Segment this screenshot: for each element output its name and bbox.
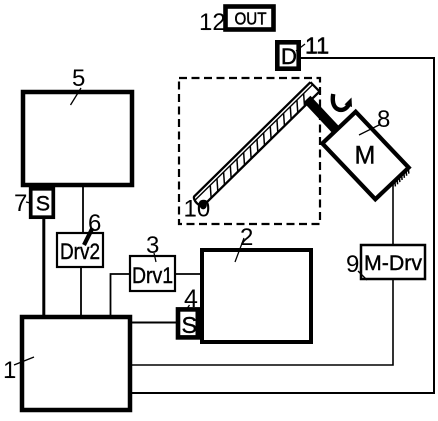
label 11: [296, 33, 329, 59]
svg-text:1: 1: [3, 357, 16, 384]
svg-text:10: 10: [184, 196, 211, 223]
svg-text:8: 8: [377, 106, 390, 133]
label 6: [84, 210, 101, 245]
svg-text:S: S: [182, 312, 198, 338]
svg-text:7: 7: [14, 190, 27, 217]
svg-text:3: 3: [146, 232, 159, 259]
detector D 11: [277, 42, 298, 69]
label 9: [346, 251, 367, 280]
driver Drv2 6: [57, 233, 103, 267]
wire block5 to Drv2: [82, 187, 84, 233]
svg-text:Drv1: Drv1: [132, 263, 173, 288]
label 5: [71, 65, 86, 105]
scale bar 10: [192, 82, 319, 207]
svg-text:OUT: OUT: [235, 9, 267, 29]
block 1: [22, 317, 130, 410]
svg-text:Drv2: Drv2: [60, 239, 100, 264]
sensor S 4: [178, 309, 198, 338]
wire M-Drv to block1: [132, 279, 393, 365]
svg-text:11: 11: [305, 33, 329, 59]
svg-text:M: M: [355, 142, 376, 170]
label 8: [359, 106, 390, 135]
svg-text:4: 4: [184, 285, 198, 313]
output box OUT 12: [226, 7, 274, 30]
svg-text:2: 2: [240, 224, 253, 251]
driver Drv1 3: [130, 256, 175, 291]
wire Drv1 to block2: [175, 273, 200, 275]
label 7: [14, 190, 31, 217]
svg-text:12: 12: [199, 9, 226, 36]
label 1: [3, 357, 34, 384]
motor driver M-Drv 9: [361, 245, 425, 279]
wire Drv2 to block1: [80, 267, 82, 315]
label 2: [235, 224, 253, 262]
label 4: [184, 285, 198, 313]
svg-text:D: D: [281, 44, 297, 69]
wire block1 to S4: [132, 322, 177, 324]
shaft bar to motor: [307, 99, 336, 130]
wire D to block1: [132, 58, 434, 393]
label 3: [146, 232, 159, 262]
wire motor to M-Drv: [392, 182, 394, 245]
sensor S 7: [31, 189, 54, 217]
svg-text:9: 9: [346, 251, 359, 278]
pivot of bar 10: [200, 200, 207, 209]
wire Drv1 to block1: [111, 274, 131, 315]
motor M 8: [322, 112, 411, 203]
rotation arrow: [333, 94, 352, 110]
svg-text:M-Drv: M-Drv: [364, 252, 422, 275]
wire S7 to block 1: [42, 218, 45, 315]
svg-text:5: 5: [72, 65, 85, 92]
dashed enclosure: [179, 78, 320, 224]
block 5: [23, 92, 132, 185]
block 2: [202, 250, 311, 342]
svg-text:S: S: [36, 192, 50, 216]
